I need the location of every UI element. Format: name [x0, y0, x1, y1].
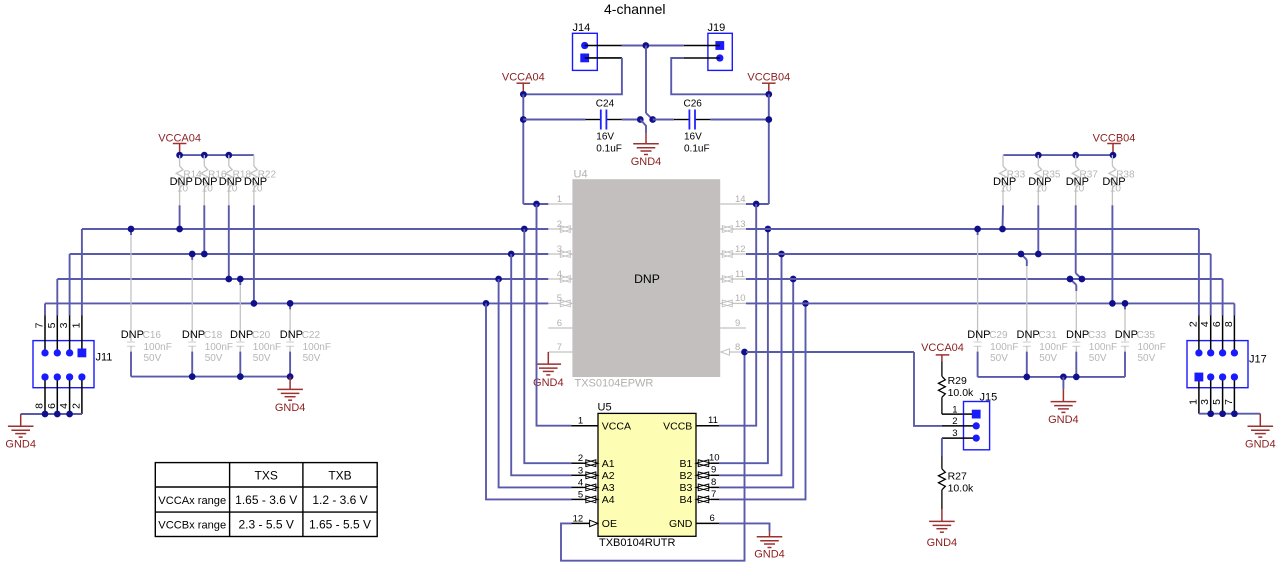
connector J17 pin 3: [1207, 373, 1214, 380]
svg-text:11: 11: [735, 269, 745, 280]
node rail R35: [1035, 152, 1042, 159]
svg-text:50V: 50V: [1138, 353, 1156, 364]
svg-text:GND4: GND4: [275, 402, 306, 414]
U5 pin 8 (B3): [711, 486, 719, 488]
ground GND4 (U5): [769, 531, 771, 537]
node row3 R37: [1079, 276, 1086, 283]
node A3 drop: [495, 276, 502, 283]
svg-text:4-channel: 4-channel: [604, 1, 666, 17]
connector J11 pin 3: [66, 349, 73, 356]
svg-text:DNP: DNP: [121, 329, 144, 341]
svg-text:50V: 50V: [205, 353, 223, 364]
node VCCB04 junction: [765, 91, 772, 98]
svg-text:100nF: 100nF: [303, 342, 331, 353]
node rail R37: [1072, 152, 1079, 159]
svg-text:8: 8: [735, 342, 740, 353]
node OE at U4 pin8: [741, 349, 748, 356]
svg-text:100nF: 100nF: [990, 342, 1018, 353]
connector J15 body: [964, 402, 990, 450]
svg-text:8: 8: [34, 403, 46, 409]
svg-text:C18: C18: [204, 330, 223, 341]
node crail C18: [189, 373, 196, 380]
node crail C22: [287, 373, 294, 380]
svg-text:C16: C16: [143, 330, 162, 341]
svg-text:3: 3: [578, 465, 583, 476]
wire A3 to U5: [499, 279, 572, 487]
wire U5 GND: [719, 523, 770, 531]
node row4 R22: [251, 300, 258, 307]
svg-text:DNP: DNP: [634, 272, 660, 286]
svg-text:TXB0104RUTR: TXB0104RUTR: [599, 537, 675, 549]
capacitor C22 (DNP): [289, 303, 291, 309]
wire J11.1 riser: [81, 229, 83, 316]
ground GND4 (J11): [20, 414, 22, 426]
node C31 top: [1018, 251, 1025, 258]
svg-text:DNP: DNP: [219, 176, 242, 188]
node row2 R35: [1035, 251, 1042, 258]
svg-text:2.3 - 5.5 V: 2.3 - 5.5 V: [239, 518, 294, 532]
resistor R18 (DNP): [228, 155, 230, 166]
U4 pin 8 stub: [730, 351, 747, 353]
ground GND4 (right caps): [1062, 377, 1064, 389]
svg-text:B1: B1: [679, 458, 692, 470]
svg-text:DNP: DNP: [1115, 329, 1138, 341]
node top center junction: [642, 42, 649, 49]
svg-text:C33: C33: [1088, 330, 1107, 341]
connector J15 pin 1 (square): [972, 410, 981, 419]
svg-text:1.65 - 5.5 V: 1.65 - 5.5 V: [309, 518, 371, 532]
svg-text:GND4: GND4: [927, 537, 958, 549]
svg-text:VCCA04: VCCA04: [158, 132, 201, 144]
wire U4 pin14 to VCCB04: [746, 203, 769, 205]
svg-text:12: 12: [573, 513, 584, 524]
power VCCB04 (right): [1107, 143, 1121, 145]
wire J11.5 riser: [56, 279, 58, 316]
svg-text:GND4: GND4: [631, 156, 662, 168]
svg-text:C26: C26: [684, 99, 703, 110]
wire A4 to U5: [486, 303, 572, 499]
svg-text:6: 6: [1211, 321, 1223, 327]
capacitor C18 (DNP): [191, 254, 193, 260]
wire J17 gnd rail: [1199, 413, 1260, 415]
connector J11 pin 6: [54, 373, 61, 380]
power VCCA04 (R29): [936, 354, 950, 356]
J17 bottom pin leads: [1198, 377, 1200, 414]
wire net A3 row: [57, 278, 548, 280]
wire to J15 pin2: [914, 352, 942, 426]
svg-text:50V: 50V: [1039, 353, 1057, 364]
wire B4 to U5: [719, 303, 806, 499]
svg-text:DNP: DNP: [244, 176, 267, 188]
svg-text:TXB: TXB: [328, 469, 351, 483]
svg-text:2: 2: [952, 416, 957, 427]
table voltage ranges: [155, 463, 377, 537]
U5 pin 7 (B4): [711, 498, 719, 500]
svg-text:100nF: 100nF: [144, 342, 172, 353]
U5 pin 12 (OE): [572, 522, 599, 524]
svg-text:11: 11: [708, 415, 718, 426]
node center gnd left: [637, 116, 644, 123]
svg-text:50V: 50V: [253, 353, 271, 364]
node J11 gnd 4: [66, 411, 73, 418]
connector J11 body: [33, 341, 94, 388]
wire net B4 row: [746, 302, 1234, 304]
node U4 pin14 branch: [753, 201, 760, 208]
svg-text:16V: 16V: [596, 132, 614, 143]
svg-text:VCCA: VCCA: [602, 420, 631, 432]
node C35 top: [1122, 300, 1129, 307]
svg-text:GND4: GND4: [1245, 438, 1276, 450]
wire net A2 row: [70, 253, 549, 255]
wire left VCCA04 rail: [180, 154, 254, 156]
connector J11 pin 2: [78, 373, 85, 380]
wire C26 to VCCB04: [710, 119, 768, 121]
wire J17.2 riser: [1198, 229, 1200, 316]
U5 pin 6 (GND): [696, 522, 719, 524]
node row3 R18: [225, 276, 232, 283]
connector J11 pin 5: [54, 349, 61, 356]
svg-text:R27: R27: [948, 471, 967, 483]
node B3 drop: [790, 276, 797, 283]
wire J15.3 down: [941, 438, 943, 456]
svg-text:C24: C24: [596, 99, 615, 110]
svg-text:4: 4: [557, 269, 562, 280]
wire top center down: [645, 46, 647, 114]
svg-text:TXS: TXS: [255, 469, 278, 483]
svg-text:5: 5: [46, 322, 58, 328]
wire U4 pin8 row: [746, 351, 914, 353]
svg-text:1: 1: [1187, 399, 1199, 405]
svg-text:DNP: DNP: [280, 329, 303, 341]
svg-text:10: 10: [735, 293, 746, 304]
resistor R35 (DNP): [1037, 155, 1039, 166]
svg-text:100nF: 100nF: [253, 342, 281, 353]
U4 pin 3 stub: [548, 253, 558, 255]
node crail C31: [1023, 374, 1030, 381]
svg-text:6: 6: [46, 403, 58, 409]
wire center to C26: [653, 119, 674, 121]
svg-text:100nF: 100nF: [1039, 342, 1067, 353]
wire VCCB04 vertical: [768, 94, 770, 204]
svg-text:GND4: GND4: [533, 377, 564, 389]
capacitor C20 (DNP): [239, 279, 241, 285]
U4 pin 7 stub: [548, 351, 572, 353]
svg-text:8: 8: [711, 477, 716, 488]
svg-text:C22: C22: [302, 330, 321, 341]
svg-text:OE: OE: [602, 518, 617, 530]
wire right VCCB04 rail: [1003, 154, 1113, 156]
J14 pin 2 lead: [585, 57, 622, 59]
J11 top pin leads: [44, 316, 46, 353]
svg-text:100nF: 100nF: [205, 342, 233, 353]
U5 pin 5 (A4): [572, 498, 584, 500]
U4 pin 2 stub: [548, 228, 558, 230]
power VCCA04 (left): [173, 143, 187, 145]
connector J11 pin 8: [41, 373, 48, 380]
node B2 drop: [778, 251, 785, 258]
wire B3 to U5: [719, 279, 793, 487]
svg-text:DNP: DNP: [967, 329, 990, 341]
svg-text:3: 3: [1199, 399, 1211, 405]
svg-text:VCCB04: VCCB04: [747, 71, 790, 83]
svg-text:DNP: DNP: [182, 329, 205, 341]
U5 pin 3 (A2): [572, 474, 584, 476]
svg-text:6: 6: [557, 318, 562, 329]
node cap row right: [765, 116, 772, 123]
U4 pin 10 stub: [734, 302, 746, 304]
wire net A1 row: [82, 228, 548, 230]
svg-text:GND4: GND4: [1048, 414, 1079, 426]
U4 pin 12 stub: [734, 253, 746, 255]
svg-text:DNP: DNP: [230, 329, 253, 341]
U4 pin 1 stub: [548, 203, 572, 205]
resistor R14 (DNP): [179, 155, 181, 166]
svg-text:J11: J11: [96, 352, 113, 364]
connector J14 body: [573, 33, 598, 70]
svg-text:10.0k: 10.0k: [948, 387, 974, 399]
svg-text:5: 5: [578, 489, 583, 500]
resistor R33 (DNP): [1002, 155, 1004, 166]
ground GND4 (center top): [645, 133, 647, 144]
svg-text:2: 2: [557, 219, 562, 230]
node A2 drop: [508, 251, 515, 258]
IC U4 body: [572, 179, 720, 377]
J11 bottom pin leads: [44, 377, 46, 414]
svg-text:7: 7: [711, 489, 716, 500]
U4 pin 11 stub: [734, 278, 746, 280]
svg-text:1: 1: [578, 416, 583, 427]
svg-text:VCCA04: VCCA04: [921, 342, 964, 354]
J14 pin 1 lead: [585, 45, 622, 47]
svg-text:B3: B3: [679, 482, 692, 494]
svg-text:VCCBx range: VCCBx range: [158, 520, 226, 532]
U4 pin 13 stub: [734, 228, 746, 230]
svg-text:A2: A2: [602, 470, 615, 482]
svg-text:VCCB: VCCB: [663, 420, 692, 432]
wire right caps gnd rail: [978, 376, 1125, 378]
node B1 drop: [765, 226, 772, 233]
svg-text:C35: C35: [1137, 330, 1156, 341]
svg-text:1.65 - 3.6 V: 1.65 - 3.6 V: [235, 493, 297, 507]
node C29 top: [974, 226, 981, 233]
wire J17.4 riser: [1210, 254, 1212, 316]
svg-text:1: 1: [70, 322, 82, 328]
node A4 drop: [483, 300, 490, 307]
capacitor C35 (DNP): [1124, 303, 1126, 309]
wire R29 to J15.1: [942, 413, 964, 415]
svg-text:B2: B2: [679, 470, 692, 482]
wire jog into cap row: [646, 113, 653, 119]
ground GND4 (J17): [1259, 414, 1261, 427]
wire B2 to U5: [719, 254, 782, 475]
connector J14 pin 1 (circle): [581, 42, 588, 49]
U5 pin 10 (B1): [711, 462, 719, 464]
wire net A4 row: [45, 302, 548, 304]
U4 pin 5 stub: [548, 302, 558, 304]
svg-text:2: 2: [1187, 321, 1199, 327]
wire VCCB to U5: [719, 204, 756, 426]
svg-text:VCCAx range: VCCAx range: [158, 495, 226, 507]
svg-text:DNP: DNP: [1066, 329, 1089, 341]
node J17 gnd 5: [1219, 410, 1226, 417]
svg-text:J14: J14: [573, 22, 591, 34]
J15 pin 2 lead: [942, 425, 976, 427]
svg-text:DNP: DNP: [170, 176, 193, 188]
svg-text:0.1uF: 0.1uF: [684, 144, 710, 155]
J15 pin 3 lead: [942, 437, 976, 439]
svg-text:10.0k: 10.0k: [948, 483, 974, 495]
wire net B3 row: [746, 278, 1223, 280]
node row2 R16: [201, 251, 208, 258]
resistor R29: [941, 362, 943, 377]
svg-text:U5: U5: [598, 402, 612, 414]
wire A1 to U5: [524, 229, 571, 463]
svg-text:VCCB04: VCCB04: [1093, 132, 1136, 144]
wire J14.2 down to VCCA04: [523, 58, 622, 94]
connector J19 pin 1 (square): [715, 41, 724, 50]
svg-text:2: 2: [578, 453, 583, 464]
svg-text:10: 10: [709, 453, 720, 464]
connector J11 pin 1 (square): [78, 349, 87, 358]
svg-text:1: 1: [557, 194, 562, 205]
node B4 drop: [802, 300, 809, 307]
wire J11 gnd rail: [21, 413, 82, 415]
wire VCCA to U5: [537, 204, 572, 426]
svg-text:DNP: DNP: [194, 176, 217, 188]
svg-text:TXS0104EPWR: TXS0104EPWR: [575, 378, 654, 390]
svg-text:100nF: 100nF: [1089, 342, 1117, 353]
connector J17 body: [1187, 341, 1248, 388]
svg-text:3: 3: [58, 322, 70, 328]
resistor R22 (DNP): [253, 155, 255, 166]
connector J14 pin 2 (square): [580, 54, 589, 63]
node J11 gnd 6: [54, 411, 61, 418]
wire J19.2 down to VCCB04: [671, 58, 769, 94]
wire OE loop: [561, 352, 745, 561]
connector J17 pin 8: [1231, 349, 1238, 356]
svg-text:GND: GND: [669, 518, 693, 530]
svg-text:C20: C20: [252, 330, 271, 341]
node center gnd right: [649, 116, 656, 123]
connector J17 pin 5: [1219, 373, 1226, 380]
svg-text:50V: 50V: [303, 353, 321, 364]
wire J17.8 riser: [1233, 303, 1235, 315]
connector J19 body: [708, 33, 732, 70]
node cap row left: [520, 116, 527, 123]
wire A2 to U5: [511, 254, 571, 475]
node VCCA04 junction: [520, 91, 527, 98]
svg-text:3: 3: [557, 244, 562, 255]
J15 pin 1 lead: [964, 413, 977, 415]
svg-text:50V: 50V: [990, 353, 1008, 364]
svg-text:1: 1: [952, 404, 957, 415]
svg-text:4: 4: [58, 403, 70, 409]
U5 pin 11 (VCCB): [696, 425, 719, 427]
svg-text:100nF: 100nF: [1138, 342, 1166, 353]
wire VCCA04 to C24: [523, 119, 585, 121]
U4 pin 14 stub: [720, 203, 746, 205]
node crail gnd: [1060, 374, 1067, 381]
node rail R14: [176, 152, 183, 159]
J19 pin 1 lead: [684, 45, 720, 47]
connector J11 pin 7: [41, 349, 48, 356]
J19 pin 2 lead: [684, 57, 720, 59]
node row4 R38: [1109, 300, 1116, 307]
capacitor C16 (DNP): [130, 229, 132, 235]
power VCCA04 (top): [517, 82, 531, 84]
node C20 top: [237, 276, 244, 283]
ground GND4 (left caps): [289, 377, 291, 390]
wire J17.6 riser: [1222, 279, 1224, 316]
connector J17 pin 7: [1231, 373, 1238, 380]
svg-text:GND4: GND4: [5, 438, 36, 450]
connector J15 pin 3 (circle): [973, 434, 980, 441]
svg-text:VCCA04: VCCA04: [502, 71, 545, 83]
svg-text:8: 8: [1223, 321, 1235, 327]
connector J17 pin 6: [1219, 349, 1226, 356]
wire C24 to center: [622, 119, 640, 121]
capacitor C33 (DNP): [1070, 279, 1076, 285]
node C33 top: [1067, 276, 1074, 283]
svg-text:C29: C29: [989, 330, 1008, 341]
node row1 R14: [176, 226, 183, 233]
svg-text:DNP: DNP: [993, 176, 1016, 188]
node J11 gnd 8: [42, 411, 49, 418]
connector J15 pin 2 (circle): [973, 422, 980, 429]
svg-text:DNP: DNP: [1017, 329, 1040, 341]
wire J11.3 riser: [69, 254, 71, 316]
node crail C20: [237, 373, 244, 380]
connector J17 pin 1 (square): [1195, 373, 1204, 382]
svg-text:GND4: GND4: [754, 549, 785, 561]
node U4 pin1 branch: [533, 201, 540, 208]
svg-text:16V: 16V: [684, 132, 702, 143]
connector J17 pin 2: [1195, 349, 1202, 356]
power VCCB04 (top): [762, 82, 776, 84]
wire J11.7 riser: [44, 303, 46, 315]
svg-text:4: 4: [1199, 321, 1211, 327]
wire center gnd jog: [640, 120, 646, 134]
J17 top pin leads: [1198, 316, 1200, 353]
connector J17 pin 4: [1207, 349, 1214, 356]
wire J14.1 to J19.1: [622, 45, 684, 47]
svg-text:DNP: DNP: [1028, 176, 1051, 188]
resistor R16 (DNP): [203, 155, 205, 166]
svg-text:A3: A3: [602, 482, 615, 494]
capacitor C31 (DNP): [1021, 254, 1027, 260]
U4 pin 6 stub: [548, 327, 572, 329]
svg-text:9: 9: [735, 318, 740, 329]
wire net B1 row: [746, 228, 1199, 230]
svg-text:2: 2: [70, 403, 82, 409]
wire B1 to U5: [719, 229, 768, 463]
svg-text:50V: 50V: [144, 353, 162, 364]
svg-text:7: 7: [1223, 399, 1235, 405]
svg-text:R29: R29: [948, 375, 967, 387]
svg-text:U4: U4: [574, 169, 588, 181]
svg-text:3: 3: [952, 428, 957, 439]
wire left caps gnd rail: [131, 376, 290, 378]
svg-text:1.2 - 3.6 V: 1.2 - 3.6 V: [312, 493, 367, 507]
node C18 top: [189, 251, 196, 258]
capacitor C24: [585, 119, 600, 121]
node rail R38: [1110, 152, 1117, 159]
wire U4 pin1 to VCCA04: [523, 203, 548, 205]
svg-text:A1: A1: [602, 458, 615, 470]
svg-text:A4: A4: [602, 494, 615, 506]
U5 pin 9 (B2): [711, 474, 719, 476]
svg-text:5: 5: [1211, 399, 1223, 405]
